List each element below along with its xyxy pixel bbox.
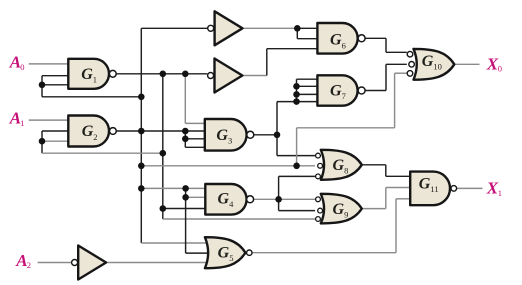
svg-text:4: 4 (229, 199, 234, 209)
svg-text:1: 1 (93, 74, 97, 84)
svg-text:G: G (216, 127, 228, 144)
svg-text:G: G (330, 83, 342, 100)
svg-text:G: G (333, 157, 345, 174)
svg-text:6: 6 (342, 40, 346, 50)
svg-text:1: 1 (498, 188, 502, 198)
svg-text:G: G (218, 244, 230, 261)
svg-text:G: G (330, 32, 342, 49)
svg-text:11: 11 (430, 184, 438, 194)
svg-text:G: G (422, 53, 434, 70)
svg-text:3: 3 (228, 135, 232, 145)
svg-text:G: G (81, 66, 93, 83)
svg-text:7: 7 (342, 91, 346, 101)
svg-text:2: 2 (93, 132, 97, 142)
svg-text:G: G (419, 176, 431, 193)
svg-text:0: 0 (20, 62, 24, 72)
svg-text:2: 2 (27, 260, 31, 270)
svg-text:9: 9 (344, 209, 348, 219)
svg-text:G: G (82, 123, 94, 140)
svg-text:1: 1 (20, 118, 24, 128)
svg-text:G: G (218, 191, 230, 208)
svg-text:8: 8 (344, 166, 348, 176)
svg-text:5: 5 (229, 253, 233, 263)
svg-text:G: G (333, 201, 345, 218)
svg-text:0: 0 (498, 64, 502, 74)
svg-text:10: 10 (433, 61, 442, 71)
